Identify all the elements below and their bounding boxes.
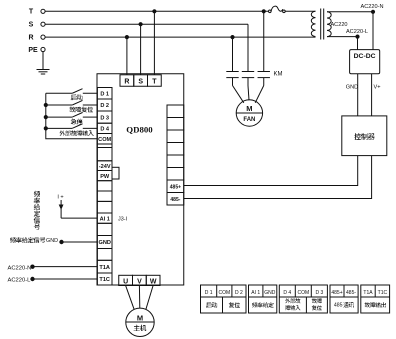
terminal PE xyxy=(28,47,45,54)
terminal box T xyxy=(148,75,162,86)
svg-text:T: T xyxy=(152,79,157,86)
legend table group 5 (T1A T1C / fault output) xyxy=(361,285,390,313)
svg-text:D 1: D 1 xyxy=(205,290,213,296)
svg-text:AC220-N: AC220-N xyxy=(360,4,383,10)
svg-text:T1C: T1C xyxy=(99,277,110,283)
svg-text:T1A: T1A xyxy=(363,290,373,296)
legend table group 1 (D1 COM D2 / start reset) xyxy=(201,285,247,313)
svg-text:AC220-N: AC220-N xyxy=(8,265,32,271)
terminal box D 3 (left strip) xyxy=(97,111,112,123)
wire AC220-N down xyxy=(372,12,374,50)
wire controller to 485+ xyxy=(184,156,358,186)
terminal box blank (left strip) xyxy=(97,144,112,148)
svg-text:V+: V+ xyxy=(374,85,381,91)
wire R drop xyxy=(126,37,128,75)
wire to T1C xyxy=(33,278,98,280)
terminal box PW (left strip) xyxy=(97,171,112,181)
svg-text:R: R xyxy=(124,79,129,86)
wire AC220-L down xyxy=(357,37,359,50)
jumper J3 box xyxy=(112,167,119,179)
wire T drop xyxy=(153,11,155,75)
svg-text:AC220-L: AC220-L xyxy=(8,278,32,284)
terminal box D 2 (left strip) xyxy=(97,99,112,111)
node T drop xyxy=(153,10,156,13)
node AC220-L xyxy=(356,35,359,38)
svg-text:U: U xyxy=(123,279,128,286)
svg-text:S: S xyxy=(138,79,143,86)
terminal box blank (left strip) xyxy=(97,223,112,235)
terminal box blank (right strip) xyxy=(167,130,184,143)
wire controller to 485- xyxy=(184,156,372,199)
terminal box 485+ (right strip) xyxy=(167,180,184,193)
terminal box W xyxy=(146,275,160,285)
svg-text:485-: 485- xyxy=(346,290,356,296)
wire W to motor xyxy=(146,286,153,310)
terminal box T1C (left strip) xyxy=(97,273,112,285)
legend table group 4 (485+ 485- / comms) xyxy=(330,285,358,313)
node switch common xyxy=(44,103,47,106)
node AC220-N left xyxy=(31,265,34,268)
wire I+ to AI1 xyxy=(61,217,97,219)
power supply DC-DC xyxy=(350,50,380,74)
node S drop xyxy=(139,23,142,26)
transformer TR (AC220) xyxy=(311,9,331,40)
terminal box T1A (left strip) xyxy=(97,260,112,273)
wire T to KM xyxy=(263,11,265,71)
svg-text:M: M xyxy=(246,104,252,113)
terminal box blank (left strip) xyxy=(97,201,112,213)
svg-text:KM: KM xyxy=(274,72,283,78)
wire R bus xyxy=(45,36,315,38)
switch 外部故障输入 (ext fault input) xyxy=(46,124,98,136)
contactor KM contacts xyxy=(226,72,270,86)
controller U2 xyxy=(342,116,387,156)
wire S drop xyxy=(140,24,142,75)
svg-text:R: R xyxy=(28,34,33,41)
svg-text:COM: COM xyxy=(98,137,111,143)
svg-text:D 4: D 4 xyxy=(100,127,110,133)
wire V to motor xyxy=(138,286,140,309)
legend table group 3 (D4 COM D3 / ext fault, fault reset) xyxy=(279,285,327,313)
node AC220-L left xyxy=(31,277,34,280)
terminal box -24V (left strip) xyxy=(97,161,112,171)
terminal box S xyxy=(134,75,148,86)
svg-text:I +: I + xyxy=(57,195,63,201)
terminal box blank (left strip) xyxy=(97,191,112,201)
wire S bus xyxy=(45,23,248,25)
node R to KM xyxy=(231,36,234,39)
svg-text:D 2: D 2 xyxy=(100,103,109,109)
current source I+ arrow xyxy=(57,195,63,219)
terminal box AI 1 (left strip) xyxy=(97,213,112,223)
svg-text:AI 1: AI 1 xyxy=(100,216,110,222)
switch 启动 (start) xyxy=(46,89,98,100)
svg-text:D 3: D 3 xyxy=(315,290,323,296)
wire to T1A xyxy=(33,266,98,268)
terminal box V xyxy=(133,275,147,285)
wire KM to fan motor xyxy=(233,86,264,103)
svg-text:485-: 485- xyxy=(170,197,180,203)
svg-text:D 3: D 3 xyxy=(100,115,109,121)
terminal box 485- (right strip) xyxy=(167,193,184,206)
terminal box D 1 (left strip) xyxy=(97,88,112,100)
svg-text:AC220: AC220 xyxy=(330,22,347,28)
switch 急停 (e-stop) xyxy=(46,113,98,125)
svg-text:GND: GND xyxy=(98,240,110,246)
svg-text:PW: PW xyxy=(100,174,110,180)
legend table group 2 (AI1 GND / freq ref) xyxy=(249,285,277,313)
svg-text:AC220-L: AC220-L xyxy=(346,29,368,35)
label 频率给定信号 (vertical) xyxy=(34,191,40,230)
switch 故障复位 (fault reset) xyxy=(46,100,98,112)
svg-text:S: S xyxy=(29,22,34,29)
terminal box blank (right strip) xyxy=(167,155,184,168)
wire secondary bottom xyxy=(327,36,358,38)
svg-text:QD800: QD800 xyxy=(126,125,153,135)
svg-text:FAN: FAN xyxy=(243,117,255,123)
terminal box blank (left strip) xyxy=(97,249,112,261)
svg-text:M: M xyxy=(137,313,143,322)
terminal T xyxy=(29,9,45,16)
svg-text:D 4: D 4 xyxy=(283,290,291,296)
wire GND down xyxy=(357,74,359,116)
node switch common xyxy=(44,116,47,119)
wire V+ down xyxy=(371,74,373,116)
svg-text:W: W xyxy=(150,279,157,286)
node GND wire xyxy=(60,240,63,243)
node T to KM xyxy=(262,10,265,13)
svg-text:AI 1: AI 1 xyxy=(251,290,260,296)
svg-text:J3-I: J3-I xyxy=(118,216,127,222)
wire secondary top xyxy=(327,11,373,13)
svg-text:COM: COM xyxy=(297,290,309,296)
wire R to KM xyxy=(232,37,234,71)
svg-text:T1A: T1A xyxy=(99,265,110,271)
svg-text:GND: GND xyxy=(264,290,276,296)
terminal box U xyxy=(119,275,133,285)
node AC220-N xyxy=(371,10,374,13)
terminal box blank (right strip) xyxy=(167,168,184,181)
terminal box D 4 (left strip) xyxy=(97,123,112,133)
wire U to motor xyxy=(126,286,135,310)
wire T bus after fuse xyxy=(286,10,316,12)
terminal box GND (left strip) xyxy=(97,236,112,249)
wire to GND xyxy=(62,241,98,243)
terminal box COM (left strip) xyxy=(97,134,112,145)
terminal R xyxy=(28,34,45,41)
node R drop xyxy=(125,36,128,39)
inverter QD800 outline xyxy=(97,74,184,285)
terminal box blank (right strip) xyxy=(167,143,184,156)
motor M FAN xyxy=(236,100,262,126)
svg-text:T: T xyxy=(29,9,34,16)
svg-text:485+: 485+ xyxy=(170,184,181,190)
svg-text:DC-DC: DC-DC xyxy=(354,53,376,60)
wire switch common xyxy=(46,93,98,139)
terminal S xyxy=(29,22,45,29)
node switch common xyxy=(44,127,47,130)
terminal box blank (left strip) xyxy=(97,148,112,161)
svg-text:D 1: D 1 xyxy=(100,91,109,97)
motor M 主机 (main motor) xyxy=(126,308,154,336)
terminal box blank (right strip) xyxy=(167,118,184,131)
svg-text:T1C: T1C xyxy=(378,290,388,296)
wire S to KM xyxy=(247,24,249,71)
ground (earth symbol) xyxy=(37,52,50,74)
svg-text:485+: 485+ xyxy=(331,290,342,296)
svg-text:D 2: D 2 xyxy=(235,290,243,296)
fuse FU xyxy=(269,6,286,12)
terminal box R xyxy=(120,75,134,86)
svg-text:GND: GND xyxy=(346,85,358,91)
svg-text:-24V: -24V xyxy=(99,164,111,170)
terminal box blank (left strip) xyxy=(97,181,112,191)
label 频率给定信号GND xyxy=(10,237,58,244)
svg-text:GND: GND xyxy=(46,238,58,244)
terminal box blank (right strip) xyxy=(167,105,184,118)
wire T bus xyxy=(45,10,268,12)
svg-text:V: V xyxy=(137,279,142,286)
svg-text:485: 485 xyxy=(334,303,343,309)
svg-text:COM: COM xyxy=(218,290,230,296)
svg-text:PE: PE xyxy=(28,47,38,54)
